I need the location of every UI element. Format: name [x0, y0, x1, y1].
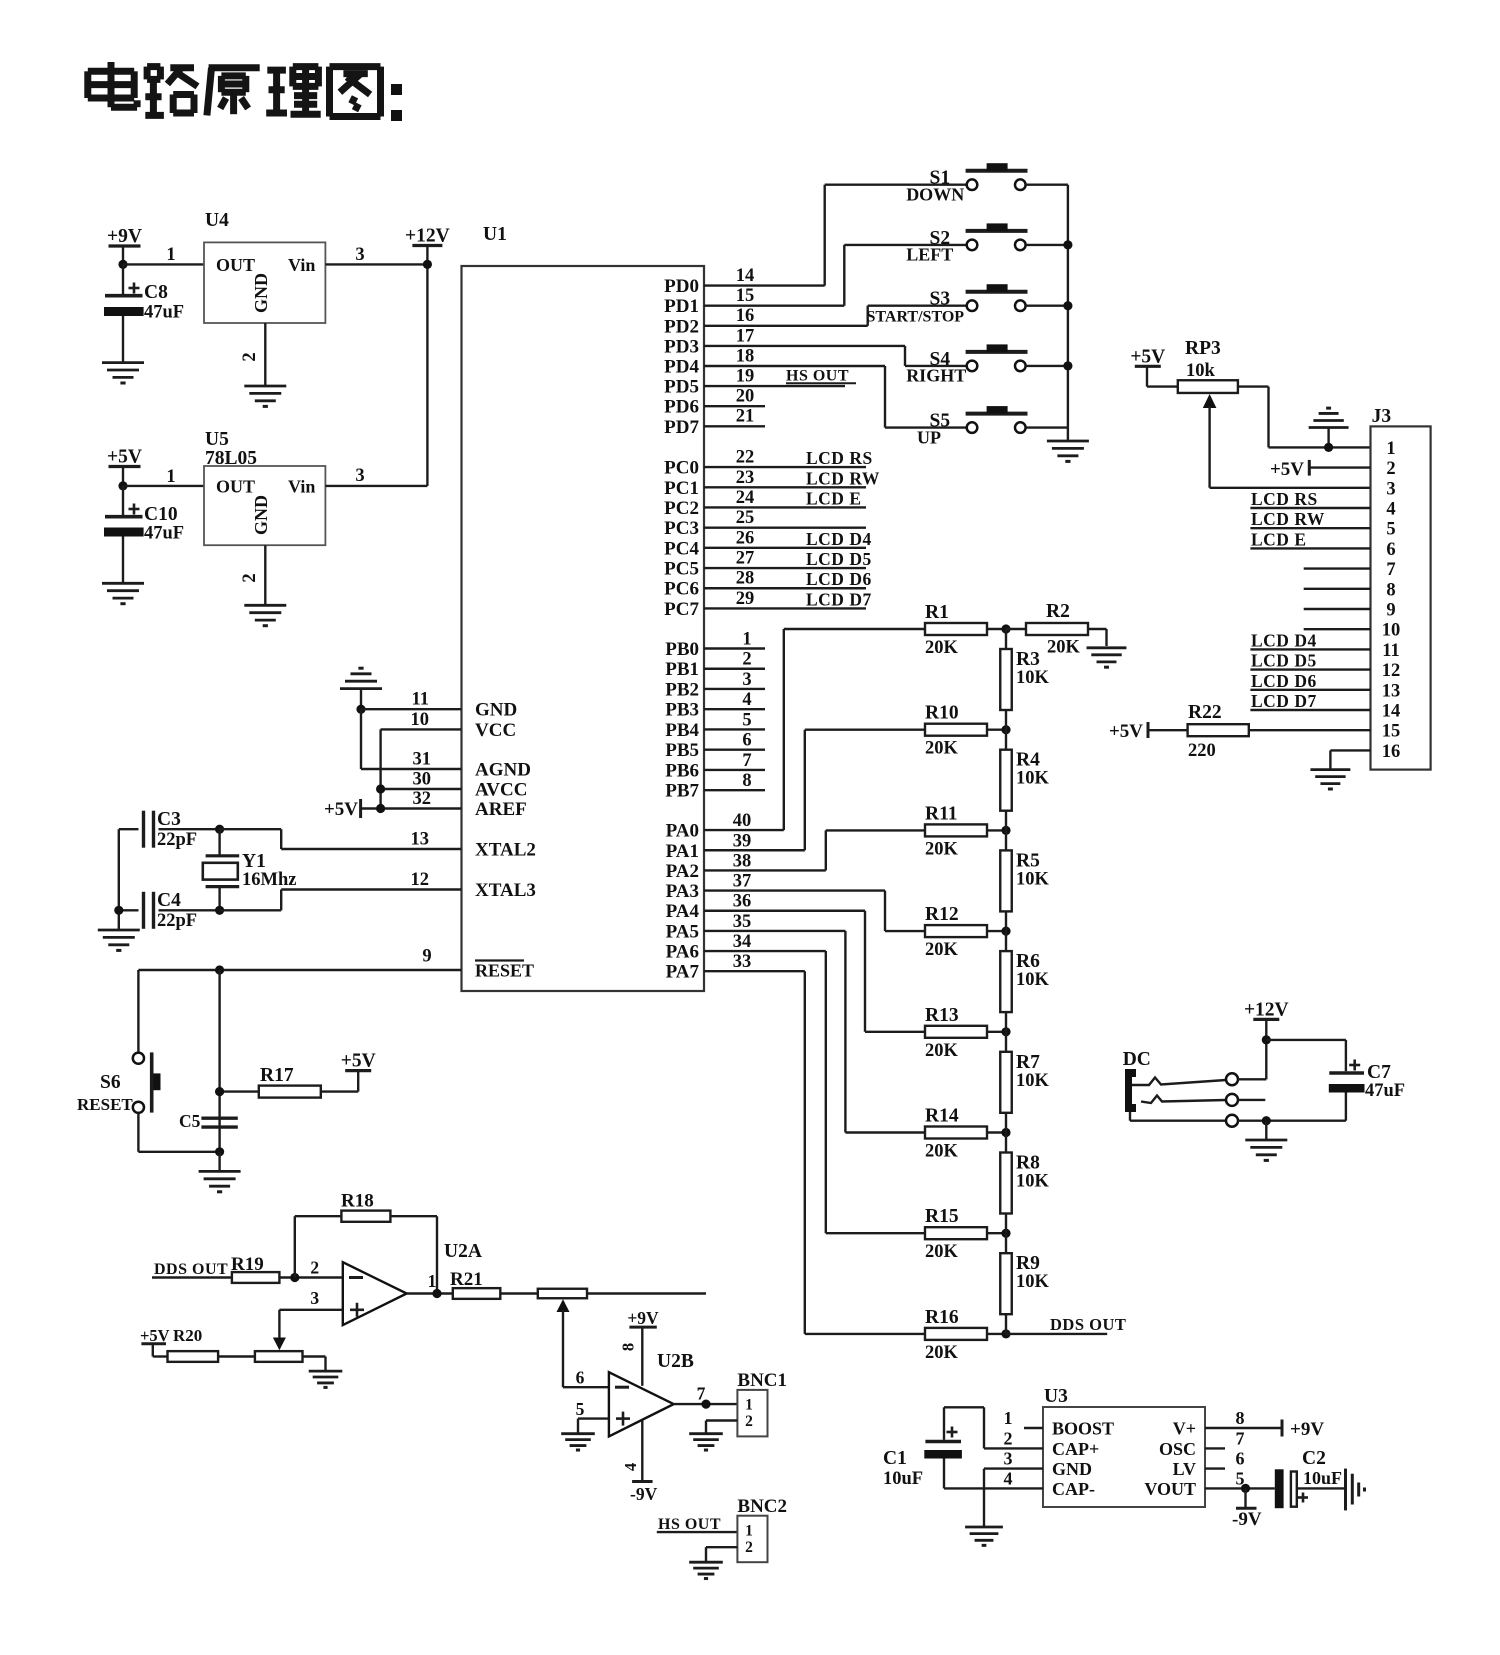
svg-text:10K: 10K: [1016, 970, 1050, 990]
wire PC0 pin22 net LCD_RS: [704, 448, 873, 469]
svg-text:22pF: 22pF: [157, 830, 197, 850]
power +5V (R22): [1109, 721, 1188, 742]
resistor R6 10K: [1000, 931, 1049, 1032]
junction ladder node 1: [1001, 624, 1010, 633]
svg-text:21: 21: [736, 407, 755, 427]
junction VOUT/-9V: [1241, 1484, 1250, 1493]
svg-text:7: 7: [1386, 560, 1395, 580]
svg-text:C7: C7: [1367, 1062, 1391, 1083]
title 电路原理图:: [88, 62, 381, 117]
wire PD4 pin18 to S5: [704, 347, 885, 428]
svg-text:1: 1: [428, 1271, 437, 1291]
svg-text:-9V: -9V: [630, 1484, 658, 1504]
MCU U1: [462, 224, 705, 991]
wire net DDS_OUT (ladder output): [1006, 1315, 1126, 1334]
wire U3 pin1 BOOST stub: [1004, 1408, 1044, 1428]
svg-text:V+: V+: [1173, 1419, 1196, 1439]
svg-text:VOUT: VOUT: [1144, 1479, 1196, 1499]
svg-text:GND: GND: [251, 273, 271, 313]
power +5V (R17): [320, 1051, 375, 1092]
power +12V (DC jack): [1244, 999, 1289, 1079]
ground (R2): [1087, 646, 1127, 649]
svg-text:1: 1: [1386, 439, 1395, 459]
junction ladder node 7: [1001, 1229, 1010, 1238]
junction R19/R18: [290, 1258, 319, 1283]
svg-text:+9V: +9V: [1290, 1419, 1324, 1440]
wire J3 pin14 net LCD_D7: [1250, 691, 1370, 711]
svg-text:R19: R19: [231, 1254, 264, 1275]
capacitor C1 10uF: [883, 1427, 962, 1490]
svg-text:36: 36: [733, 892, 752, 912]
capacitor C5: [179, 1111, 238, 1131]
resistor R22 220: [1188, 702, 1371, 761]
junction S6/C5 ground: [215, 1147, 224, 1156]
svg-text:20K: 20K: [925, 940, 959, 960]
svg-text:12: 12: [1382, 661, 1401, 681]
svg-text:4: 4: [742, 690, 751, 710]
svg-text:3: 3: [1004, 1449, 1013, 1469]
svg-text:GND: GND: [251, 495, 271, 535]
svg-text:C8: C8: [144, 282, 168, 303]
connector J3: [1371, 406, 1431, 770]
svg-text:LCD D5: LCD D5: [1251, 651, 1317, 671]
wire PD1 pin15 to S2: [704, 245, 844, 306]
svg-text:LCD RW: LCD RW: [806, 468, 880, 488]
svg-text:BNC1: BNC1: [737, 1370, 787, 1391]
ground (U3): [965, 1526, 1003, 1529]
wire PA1 pin39 to ladder: [704, 730, 805, 852]
resistor R7 10K: [1000, 1032, 1049, 1133]
svg-text:R9: R9: [1016, 1253, 1040, 1274]
svg-text:Y1: Y1: [242, 851, 266, 872]
svg-text:R17: R17: [260, 1065, 294, 1086]
wire RESET net vertical: [218, 970, 220, 1152]
wire +12V to C7: [1266, 1039, 1346, 1041]
ground (BNC1): [689, 1432, 723, 1435]
svg-text:PC1: PC1: [664, 478, 699, 499]
capacitor C2 10uF: [1275, 1448, 1345, 1508]
power +9V (U4 input): [107, 226, 142, 264]
U5 pin2 GND lead: [240, 545, 265, 605]
pushbutton S2 LEFT: [844, 223, 1068, 264]
wire J3 pin13 net LCD_D6: [1250, 671, 1370, 691]
svg-text:U3: U3: [1044, 1386, 1068, 1407]
svg-text:U4: U4: [205, 210, 229, 231]
svg-text:26: 26: [736, 528, 755, 548]
svg-text:PB5: PB5: [665, 740, 699, 761]
svg-text:R15: R15: [925, 1206, 959, 1227]
svg-text:HS OUT: HS OUT: [786, 368, 849, 385]
svg-text:R5: R5: [1016, 850, 1040, 871]
svg-text:1: 1: [1004, 1408, 1013, 1428]
wire GND pin11: [361, 690, 462, 770]
svg-text:S3: S3: [930, 289, 951, 310]
svg-text:LCD E: LCD E: [806, 488, 862, 508]
svg-text:+5V: +5V: [107, 447, 142, 468]
resistor R17: [220, 1065, 321, 1098]
svg-text:11: 11: [1382, 641, 1399, 661]
svg-text:C3: C3: [157, 809, 181, 830]
svg-text:LCD D6: LCD D6: [1251, 671, 1317, 691]
regulator U4: [204, 210, 325, 323]
wire net HS_OUT (BNC2): [657, 1516, 738, 1533]
svg-text:RP3: RP3: [1185, 338, 1221, 359]
svg-text:3: 3: [355, 466, 364, 486]
pushbutton S4 RIGHT: [905, 344, 1068, 385]
svg-text:CAP-: CAP-: [1052, 1479, 1095, 1499]
svg-text:20K: 20K: [925, 839, 959, 859]
svg-text:78L05: 78L05: [205, 448, 257, 469]
svg-text:XTAL3: XTAL3: [475, 880, 536, 901]
svg-text:4: 4: [1386, 500, 1395, 520]
capacitor C7 47uF: [1329, 1040, 1405, 1121]
wire U3 pin6 LV stub: [1205, 1449, 1245, 1469]
ground (U1 GND/AGND): [340, 668, 382, 709]
wire U2A output pin1: [407, 1271, 453, 1294]
svg-text:+12V: +12V: [405, 226, 450, 247]
wire PB6 pin7 stub: [704, 751, 765, 771]
svg-text:R12: R12: [925, 904, 959, 925]
svg-text:PC5: PC5: [664, 559, 699, 580]
resistor R2 20K: [1006, 601, 1107, 658]
svg-text:AVCC: AVCC: [475, 780, 527, 801]
svg-text:R8: R8: [1016, 1153, 1040, 1174]
svg-text:16Mhz: 16Mhz: [242, 870, 296, 890]
pushbutton S1 DOWN: [825, 163, 1068, 204]
junction J3 pin1 ground: [1324, 443, 1333, 452]
svg-text:OUT: OUT: [216, 255, 255, 275]
capacitor C4 22pF: [119, 890, 220, 931]
svg-text:22: 22: [736, 448, 755, 468]
svg-text:16: 16: [736, 306, 755, 326]
junction U2A output/R18: [432, 1289, 441, 1298]
wire U3 pin4 CAP- to C1: [944, 1469, 1043, 1489]
svg-text:PB1: PB1: [665, 659, 699, 680]
power +5V (RP3): [1130, 346, 1177, 386]
svg-text:C5: C5: [179, 1111, 201, 1131]
wire PD2 pin16 to S3: [704, 306, 868, 326]
resistor R21: [450, 1269, 538, 1299]
wire PB7 pin8 stub: [704, 771, 765, 791]
resistor R1 20K: [784, 602, 1006, 658]
IC U3: [1043, 1386, 1205, 1507]
wire RP3 to J3 pin1: [1238, 387, 1371, 448]
svg-text:AREF: AREF: [475, 799, 527, 820]
svg-text:R11: R11: [925, 803, 958, 824]
svg-text:R10: R10: [925, 703, 959, 724]
svg-text:15: 15: [736, 286, 755, 306]
svg-text:10K: 10K: [1016, 1272, 1050, 1292]
pushbutton S5 UP: [885, 406, 1068, 447]
svg-text:20K: 20K: [925, 1142, 959, 1162]
svg-text:PA3: PA3: [666, 881, 699, 902]
svg-text:PC6: PC6: [664, 579, 699, 600]
svg-text:J3: J3: [1372, 406, 1392, 427]
svg-text:8: 8: [742, 771, 751, 791]
svg-text:22pF: 22pF: [157, 911, 197, 931]
svg-text:+5V: +5V: [140, 1326, 170, 1345]
svg-text:12: 12: [411, 870, 430, 890]
svg-text:PD5: PD5: [664, 377, 699, 398]
svg-text:RESET: RESET: [77, 1095, 133, 1114]
svg-text:16: 16: [1382, 742, 1401, 762]
junction bus S2: [1063, 240, 1072, 249]
svg-text:C4: C4: [157, 890, 181, 911]
svg-text:5: 5: [742, 710, 751, 730]
svg-text:4: 4: [1004, 1469, 1013, 1489]
svg-text:10K: 10K: [1016, 769, 1050, 789]
op-amp U2A: [343, 1241, 482, 1325]
svg-text:20: 20: [736, 387, 755, 407]
svg-text:LV: LV: [1173, 1459, 1196, 1479]
svg-text:20K: 20K: [925, 1343, 959, 1363]
wire PB2 pin3 stub: [704, 670, 765, 690]
wire PC1 pin23 net LCD_RW: [704, 468, 880, 489]
wire U5 pin1: [123, 467, 204, 487]
junction GND rail: [356, 705, 365, 714]
svg-text:13: 13: [411, 830, 430, 850]
svg-text:2: 2: [310, 1258, 319, 1278]
ground (U5 pin2): [244, 604, 286, 607]
resistor R3 10K: [1000, 629, 1049, 730]
resistor R8 10K: [1000, 1133, 1049, 1234]
svg-text:PD1: PD1: [664, 296, 699, 317]
svg-text:R13: R13: [925, 1005, 959, 1026]
svg-text:27: 27: [736, 549, 755, 569]
svg-text:10: 10: [411, 710, 430, 730]
wire J3 pin10 stub: [1304, 628, 1371, 630]
wire PC3 pin25 stub: [704, 508, 866, 528]
power +12V node: [405, 226, 450, 486]
junction ladder node 3: [1001, 826, 1010, 835]
capacitor C10 47uF: [104, 486, 184, 583]
junction ladder node 8: [1001, 1329, 1010, 1338]
svg-text:LCD D4: LCD D4: [1251, 630, 1317, 650]
junction RESET/R17: [215, 965, 224, 974]
svg-text:+5V: +5V: [341, 1051, 376, 1072]
resistor R19: [231, 1254, 343, 1283]
svg-text:6: 6: [742, 731, 751, 751]
svg-text:31: 31: [413, 750, 432, 770]
svg-text:LCD RS: LCD RS: [806, 448, 873, 468]
svg-text:R16: R16: [925, 1307, 959, 1328]
svg-text:C2: C2: [1302, 1448, 1326, 1469]
wire PA6 pin34 to ladder: [704, 932, 826, 1233]
wire PB5 pin6 stub: [704, 731, 765, 751]
svg-text:U2B: U2B: [657, 1351, 694, 1372]
wire crystal ground rail: [118, 829, 120, 930]
svg-text:GND: GND: [475, 700, 517, 721]
svg-text:RIGHT: RIGHT: [906, 366, 966, 386]
junction +12V/C7: [1262, 1035, 1271, 1044]
wire button common bus: [1067, 185, 1069, 428]
wire VCC pin10: [381, 710, 462, 809]
junction R17/C5: [215, 1087, 224, 1096]
connector BNC2: [737, 1496, 787, 1562]
ground (C2, rotated): [1346, 1469, 1365, 1511]
svg-text:DOWN: DOWN: [906, 184, 964, 204]
svg-text:30: 30: [413, 770, 432, 790]
wire U2B pin5 (+input) to ground: [576, 1399, 609, 1434]
svg-text:5: 5: [1386, 520, 1395, 540]
svg-text:7: 7: [742, 751, 751, 771]
svg-text:PB7: PB7: [665, 781, 699, 802]
capacitor C3 22pF: [119, 809, 220, 850]
svg-text:BOOST: BOOST: [1052, 1419, 1114, 1439]
power +9V (U2B pin8): [619, 1308, 660, 1386]
resistor R18 (feedback): [295, 1191, 437, 1294]
ground (C10): [102, 582, 144, 585]
wire RESET pin9: [138, 947, 461, 971]
wire PB3 pin4 stub: [704, 690, 765, 710]
ground (offset pot): [309, 1370, 343, 1373]
svg-text:PB4: PB4: [665, 720, 699, 741]
svg-text:R2: R2: [1046, 601, 1070, 622]
svg-text:GND: GND: [1052, 1459, 1092, 1479]
wire net DDS_OUT (U2A input): [152, 1261, 232, 1278]
power +5V (J3 pin2): [1270, 459, 1371, 480]
svg-text:PB6: PB6: [665, 760, 699, 781]
junction AREF rail: [376, 804, 385, 813]
svg-text:PA0: PA0: [666, 821, 699, 842]
svg-text:PC0: PC0: [664, 458, 699, 479]
svg-text:2: 2: [1386, 459, 1395, 479]
svg-text:PB3: PB3: [665, 700, 699, 721]
svg-text:1: 1: [745, 1523, 753, 1540]
svg-text:34: 34: [733, 932, 752, 952]
svg-text:29: 29: [736, 589, 755, 609]
svg-text:7: 7: [1236, 1429, 1245, 1449]
svg-text:RESET: RESET: [475, 961, 534, 981]
svg-text:20K: 20K: [1047, 638, 1081, 658]
wire PA0 pin40 to ladder: [704, 629, 784, 831]
svg-text:220: 220: [1188, 741, 1216, 761]
svg-text:11: 11: [412, 690, 429, 710]
junction C4 ground rail: [114, 906, 123, 915]
wire PD3 pin17 to S4: [704, 327, 905, 366]
junction ladder node 4: [1001, 927, 1010, 936]
junction bus S3: [1063, 301, 1072, 310]
resistor R11 20K: [826, 803, 1006, 859]
svg-text:CAP+: CAP+: [1052, 1439, 1099, 1459]
ground (reset circuit): [199, 1152, 241, 1192]
wire PA2 pin38 to ladder: [704, 830, 826, 871]
svg-text:DDS OUT: DDS OUT: [154, 1261, 228, 1278]
wire U2A pin3 (+input): [273, 1288, 343, 1350]
wire PA5 pin35 to ladder: [704, 912, 845, 1133]
wire U3 pin7 OSC stub: [1205, 1429, 1245, 1449]
svg-text:8: 8: [1236, 1408, 1245, 1428]
svg-text:3: 3: [310, 1288, 319, 1308]
svg-text:UP: UP: [917, 427, 941, 447]
svg-text:3: 3: [742, 670, 751, 690]
junction bus S4: [1063, 361, 1072, 370]
svg-text:2: 2: [240, 352, 260, 361]
wire J3 pin11 net LCD_D4: [1250, 630, 1370, 650]
power -9V (VOUT): [1232, 1488, 1262, 1530]
wire PC5 pin27 net LCD_D5: [704, 549, 872, 570]
power +5V (R20): [140, 1326, 170, 1357]
svg-text:R3: R3: [1016, 649, 1040, 670]
resistor R16 20K: [805, 1307, 1006, 1363]
svg-text:8: 8: [1386, 580, 1395, 600]
svg-text:20K: 20K: [925, 739, 959, 759]
ground (U4 pin2): [244, 385, 286, 388]
svg-text:R22: R22: [1188, 702, 1222, 723]
svg-text:1: 1: [745, 1397, 753, 1414]
wire J3 pin7 stub: [1304, 567, 1371, 569]
ground (C8): [102, 361, 144, 364]
svg-text:U1: U1: [483, 224, 507, 245]
svg-text:R21: R21: [450, 1269, 483, 1290]
power -9V (U2B pin4): [621, 1420, 658, 1504]
svg-text:R6: R6: [1016, 951, 1040, 972]
junction DC ground: [1262, 1116, 1271, 1125]
svg-text:R18: R18: [341, 1191, 374, 1212]
svg-text:9: 9: [422, 947, 431, 967]
svg-text:6: 6: [576, 1368, 585, 1388]
svg-text:6: 6: [1386, 540, 1395, 560]
svg-text:LCD E: LCD E: [1251, 529, 1307, 549]
power +5V (U5 output): [107, 447, 142, 486]
svg-text:35: 35: [733, 912, 752, 932]
wire BNC1 pin2 to ground: [706, 1421, 737, 1434]
svg-text:R7: R7: [1016, 1052, 1040, 1073]
svg-text:+5V: +5V: [1130, 346, 1165, 367]
capacitor C8 47uF: [104, 264, 184, 362]
svg-text:47uF: 47uF: [144, 303, 184, 323]
wire PC2 pin24 net LCD_E: [704, 488, 866, 509]
svg-text:LCD D6: LCD D6: [806, 569, 872, 589]
resistor R13 20K: [865, 1005, 1006, 1061]
wire AREF pin32: [361, 789, 462, 809]
svg-text:R1: R1: [925, 602, 949, 623]
junction ladder node 5: [1001, 1027, 1010, 1036]
wire PB4 pin5 stub: [704, 710, 765, 730]
svg-text:4: 4: [621, 1463, 640, 1471]
svg-text:U5: U5: [205, 429, 229, 450]
svg-text:-9V: -9V: [1232, 1509, 1262, 1530]
svg-text:20K: 20K: [925, 1242, 959, 1262]
svg-text:10K: 10K: [1016, 668, 1050, 688]
svg-text:PB2: PB2: [665, 679, 699, 700]
svg-text:1: 1: [166, 467, 175, 487]
wire PD5 pin19 net HS_OUT: [704, 367, 856, 387]
ground (DC jack): [1245, 1121, 1287, 1161]
junction AVCC rail: [376, 784, 385, 793]
resistor R4 10K: [1000, 730, 1049, 831]
svg-text:10K: 10K: [1016, 869, 1050, 889]
svg-text:5: 5: [576, 1399, 585, 1419]
power +5V (AREF rail): [324, 799, 361, 820]
wire AVCC pin30: [381, 770, 462, 790]
wire PD0 pin14 to S1: [704, 185, 825, 286]
svg-text:37: 37: [733, 872, 752, 892]
svg-text:LCD RS: LCD RS: [1251, 489, 1318, 509]
svg-text:PA4: PA4: [666, 901, 700, 922]
connector BNC1: [737, 1370, 787, 1436]
svg-text:HS OUT: HS OUT: [658, 1516, 721, 1533]
svg-text:Vin: Vin: [288, 477, 315, 497]
svg-text:14: 14: [1382, 702, 1401, 722]
wire PD6 pin20 stub: [704, 387, 765, 407]
svg-text:28: 28: [736, 569, 755, 589]
junction +12V/U4 pin3: [423, 260, 432, 269]
svg-text:PA2: PA2: [666, 861, 699, 882]
wire U2B output pin7: [674, 1384, 738, 1405]
resistor R10 20K: [805, 703, 1006, 759]
wire U4 pin1: [123, 245, 204, 265]
